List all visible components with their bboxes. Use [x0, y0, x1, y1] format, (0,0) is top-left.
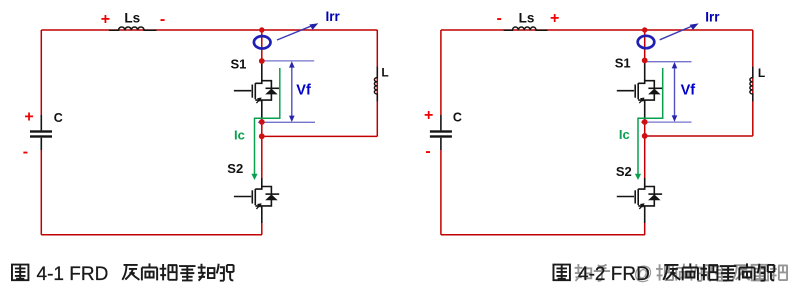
transistor S2 drain lead — [261, 178, 263, 187]
transistor S1 — [617, 80, 662, 103]
Vf double arrow shaft — [291, 65, 293, 119]
svg-text:-: - — [497, 10, 502, 27]
transistor S2 — [617, 186, 662, 209]
wire: mid horizontal to L branch — [645, 135, 753, 137]
transistor S1 drain lead — [644, 62, 646, 81]
svg-text:Ls: Ls — [124, 11, 140, 26]
svg-text:4-2 FRD: 4-2 FRD — [578, 264, 650, 285]
junction dot S1 drain node — [259, 58, 265, 64]
svg-text:Irr: Irr — [326, 9, 341, 24]
inductor Ls — [109, 27, 157, 30]
capacitor C — [30, 115, 52, 150]
svg-text:Irr: Irr — [705, 9, 720, 24]
svg-text:Ls: Ls — [519, 10, 535, 25]
svg-text:L: L — [758, 66, 765, 80]
Ic green wire — [255, 68, 280, 176]
svg-text:+: + — [424, 107, 433, 124]
svg-text:-: - — [160, 11, 165, 28]
Vf bracket bottom line — [258, 121, 315, 123]
junction dot S1 source node — [259, 119, 265, 125]
junction dot mid branch node — [259, 133, 265, 139]
svg-text:-: - — [23, 144, 28, 161]
transistor S2 drain lead — [644, 178, 646, 187]
Vf double arrow shaft — [674, 65, 676, 118]
svg-text:S1: S1 — [615, 56, 631, 71]
svg-text:4-1 FRD: 4-1 FRD — [37, 264, 109, 285]
Ic arrowhead — [635, 174, 641, 180]
inductor L (load branch) — [750, 67, 753, 102]
inductor L (load branch) — [374, 67, 377, 102]
Ic green wire — [638, 68, 663, 176]
Ic arrowhead — [251, 174, 257, 180]
svg-text:S2: S2 — [616, 164, 632, 179]
svg-text:Ic: Ic — [234, 128, 245, 143]
transistor S2 source lead — [644, 206, 646, 223]
wire: top (right loop) — [441, 29, 753, 31]
transistor S2 source lead — [261, 206, 263, 223]
transistor S1 — [234, 80, 279, 103]
junction dot S1 drain node — [642, 58, 648, 64]
white gap for capacitor C on left wire — [38, 115, 45, 150]
wire: centre vertical segments — [644, 30, 646, 60]
junction dot mid branch node — [642, 133, 648, 139]
watermark 知乎 @... (grey, drawn first) — [575, 264, 610, 281]
transistor S1 source lead — [644, 100, 646, 121]
Irr arrow — [660, 25, 695, 40]
current probe ellipse — [638, 36, 655, 48]
wire: left side — [40, 30, 42, 235]
svg-text:+: + — [24, 108, 33, 125]
wire: right side — [376, 30, 378, 136]
white gap for capacitor C on left wire — [438, 115, 445, 150]
junction dot top — [642, 27, 647, 32]
wire: top (left loop) — [41, 29, 377, 31]
Vf bracket top line — [645, 61, 692, 63]
inductor Ls — [504, 27, 548, 30]
caption left: 图 4-1 FRD 反向恢复前沿 — [12, 265, 28, 281]
current probe ellipse — [254, 36, 271, 48]
svg-text:C: C — [54, 111, 63, 125]
Vf bracket bottom line — [641, 121, 692, 123]
svg-text:S1: S1 — [231, 57, 247, 72]
svg-text:L: L — [381, 65, 388, 79]
wire: left side — [440, 30, 442, 235]
junction dot top — [259, 27, 264, 32]
wire: mid horizontal to L branch — [262, 135, 378, 137]
svg-text:-: - — [425, 143, 430, 160]
wire: centre vertical segments — [261, 30, 263, 61]
caption right: 图 4-2 FRD 反向恢复后沿 — [553, 265, 569, 281]
transistor S2 — [234, 186, 279, 209]
transistor S1 source lead — [261, 100, 263, 121]
svg-text:Vf: Vf — [681, 83, 696, 99]
Vf bracket top line — [262, 60, 314, 62]
wire: right side — [752, 30, 754, 136]
svg-text:Ic: Ic — [619, 127, 630, 142]
capacitor C — [430, 115, 452, 150]
svg-text:+: + — [101, 11, 110, 28]
junction dot S1 source node — [642, 119, 648, 125]
svg-text:S2: S2 — [227, 161, 243, 176]
transistor S1 drain lead — [261, 62, 263, 81]
svg-text:C: C — [453, 111, 462, 125]
Irr arrow — [277, 25, 315, 40]
wire: bottom — [441, 234, 645, 236]
svg-text:+: + — [550, 10, 559, 27]
svg-text:Vf: Vf — [296, 83, 311, 99]
wire: bottom — [41, 234, 262, 236]
